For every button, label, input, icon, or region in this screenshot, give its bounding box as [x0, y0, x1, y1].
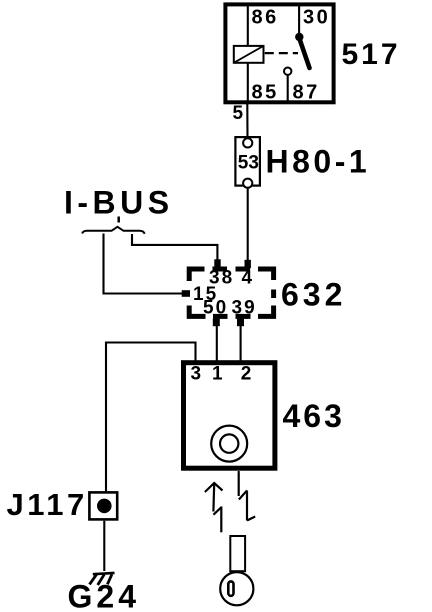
ground symbol G24: [90, 573, 115, 585]
lamp symbol: [211, 426, 247, 462]
pin 15 stub: [182, 290, 190, 297]
svg-text:3: 3: [191, 364, 204, 385]
svg-text:85: 85: [252, 82, 279, 104]
svg-text:632: 632: [281, 277, 346, 313]
wire pin 39 to pin 2: [240, 326, 242, 363]
I-BUS pointer dash: [117, 217, 120, 223]
svg-text:86: 86: [252, 7, 279, 29]
svg-text:39: 39: [232, 298, 257, 319]
pin 39 stub: [237, 319, 244, 327]
svg-text:517: 517: [342, 38, 401, 71]
J117 contact dot: [97, 499, 112, 514]
wire 5 (relay 85 to fuse): [246, 104, 248, 139]
wire I-BUS to pin 15: [104, 234, 186, 294]
key head: [220, 572, 253, 605]
svg-text:87: 87: [293, 82, 320, 104]
pin 50 stub: [213, 319, 220, 327]
relay 517 box: [225, 4, 333, 102]
key shaft: [230, 536, 245, 571]
svg-text:G24: G24: [68, 579, 140, 612]
svg-text:50: 50: [203, 298, 228, 319]
pin 38 stub: [214, 259, 220, 268]
switch lever: [299, 37, 310, 69]
switch pivot dot: [295, 33, 303, 41]
dashed actuator link: [265, 52, 298, 54]
svg-text:53: 53: [238, 152, 259, 173]
wire pin 86: [247, 5, 249, 47]
svg-text:30: 30: [303, 7, 330, 29]
contact 87 terminal circle: [284, 68, 291, 75]
connector 632 dashed box: [189, 269, 273, 316]
wire fuse to pin 4: [247, 188, 249, 262]
fuse bottom terminal: [243, 179, 252, 188]
svg-text:J117: J117: [7, 487, 88, 522]
module 463 box: [184, 363, 275, 469]
break bolt down: [239, 475, 256, 521]
wire pin 85: [247, 63, 249, 104]
connector J117 box: [89, 492, 117, 519]
wire 463 to break symbol: [238, 471, 240, 475]
fuse H80-1 body: [235, 137, 260, 186]
svg-text:1: 1: [212, 364, 225, 385]
fuse top terminal: [243, 138, 252, 147]
wire pin 87: [287, 75, 289, 103]
pin 4 stub: [245, 260, 251, 269]
svg-text:4: 4: [242, 268, 255, 289]
I-BUS brace: [82, 227, 145, 234]
relay coil: [234, 46, 264, 63]
break arrow up: [205, 483, 223, 532]
svg-text:H80-1: H80-1: [266, 144, 371, 180]
wire pin 3 to J117: [106, 343, 196, 492]
key slot: [228, 581, 233, 595]
svg-text:463: 463: [283, 398, 345, 434]
svg-text:5: 5: [233, 103, 246, 124]
svg-text:I-BUS: I-BUS: [64, 185, 174, 221]
wire pin 50 to pin 1: [216, 326, 218, 363]
wire I-BUS to pin 38: [132, 234, 217, 262]
wire J117 to ground: [103, 521, 105, 571]
wire pin 30: [298, 5, 300, 36]
svg-text:2: 2: [241, 364, 254, 385]
